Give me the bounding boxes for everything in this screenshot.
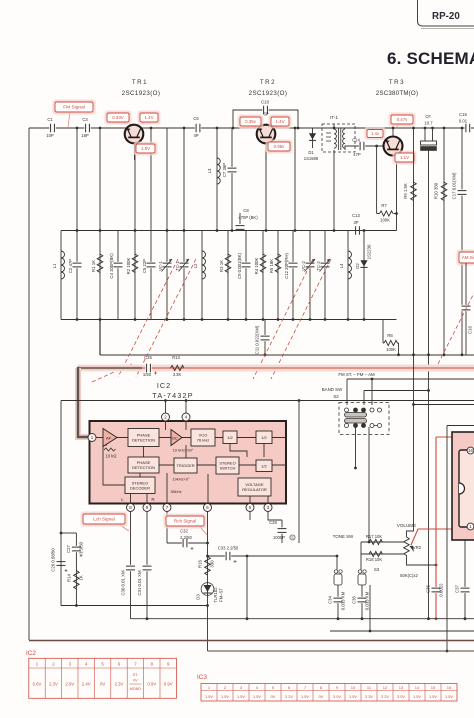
- svg-text:TC-2: TC-2: [316, 261, 321, 271]
- svg-text:0V: 0V: [271, 694, 276, 699]
- wire C37 column: [464, 535, 466, 619]
- junction main wire x444: [443, 127, 446, 130]
- wire R7 left leg: [376, 146, 378, 214]
- pin 3 IC2: [264, 504, 272, 512]
- resistor R2: [132, 254, 138, 273]
- junction main wire x295: [294, 127, 297, 130]
- wire TR1 emitter stub: [134, 143, 136, 160]
- dashed gang line VC-2: [253, 259, 313, 379]
- capacitor C5: [147, 262, 156, 268]
- svg-text:1.1V: 1.1V: [400, 155, 409, 160]
- capacitor C14: [359, 142, 365, 150]
- svg-text:1/2: 1/2: [261, 435, 267, 440]
- capacitor C8: [239, 213, 241, 224]
- junction bottom rail x348: [347, 318, 350, 321]
- junction rail619 x147: [146, 617, 149, 620]
- band switch S2: [339, 403, 389, 435]
- junction main wire x233: [232, 127, 235, 130]
- svg-text:1S1588: 1S1588: [304, 156, 319, 161]
- wire C11 column: [264, 320, 266, 355]
- svg-text:VR2: VR2: [413, 545, 422, 550]
- pointer Rch: [200, 527, 207, 535]
- resistor R13: [171, 365, 184, 370]
- svg-text:1.5V: 1.5V: [253, 694, 261, 699]
- svg-text:C2 47P: C2 47P: [68, 259, 73, 273]
- svg-text:Lch Signal: Lch Signal: [93, 517, 114, 522]
- pin 9 IC2: [143, 504, 151, 512]
- svg-text:AM Sig: AM Sig: [462, 255, 474, 260]
- svg-text:4P: 4P: [193, 133, 198, 138]
- wire C34 column: [337, 585, 339, 619]
- svg-text:13: 13: [399, 685, 404, 690]
- svg-text:0.35v: 0.35v: [245, 119, 257, 124]
- svg-text:DC: DC: [172, 436, 178, 440]
- switch S3 right: [358, 570, 366, 585]
- svg-text:R7: R7: [381, 203, 387, 208]
- svg-text:2.2V: 2.2V: [381, 694, 389, 699]
- transformer IT-1: [322, 124, 355, 152]
- capacitor C25: [145, 364, 151, 372]
- svg-text:C5 22P: C5 22P: [142, 259, 147, 273]
- callout FM Signal: [53, 100, 96, 115]
- block divider 1/2 a: [223, 431, 237, 444]
- junction R14 bottom: [75, 604, 78, 607]
- svg-text:12: 12: [383, 685, 388, 690]
- wire lower rail y=355: [100, 354, 474, 356]
- dashed gang line right: [438, 293, 474, 364]
- wire drop x299: [298, 401, 300, 544]
- svg-text:TRIGGER: TRIGGER: [176, 463, 194, 468]
- pin 6 IC2: [204, 504, 212, 512]
- svg-text:L4: L4: [339, 263, 344, 268]
- svg-text:R3 1K: R3 1K: [219, 260, 224, 272]
- junction LED line y605: [206, 604, 209, 607]
- wire: thick lead into IC2 pin 1: [78, 367, 88, 437]
- svg-text:3.0V: 3.0V: [397, 694, 405, 699]
- wire IC2 internal verticals: [131, 421, 269, 504]
- resistor R9: [411, 182, 417, 201]
- wire connector x100 to lower rail: [99, 320, 101, 356]
- junction lower rail x398.5: [397, 353, 400, 356]
- junction bottom rail x310: [309, 318, 312, 321]
- wire bank column R2: [134, 231, 136, 320]
- transistor TR1: [125, 125, 144, 144]
- svg-text:D2: D2: [355, 263, 360, 269]
- svg-text:C11 0.022(XM): C11 0.022(XM): [255, 325, 260, 354]
- wire bank column L4: [347, 231, 349, 320]
- wire ground rail y=619: [131, 618, 474, 620]
- capacitor C35: [358, 597, 367, 603]
- wire R8 to rail: [398, 343, 400, 355]
- wire band switch down2: [368, 427, 370, 542]
- inductor L1: [61, 251, 65, 279]
- resistor R16: [205, 557, 211, 576]
- junction red bottom: [435, 617, 438, 620]
- svg-text:D1: D1: [308, 150, 314, 155]
- junction main wire x462: [461, 127, 464, 130]
- amplifier AF: [103, 429, 117, 447]
- wire bank column C9: [245, 231, 247, 320]
- svg-text:1.4V: 1.4V: [144, 115, 153, 120]
- wire drop x100: [99, 128, 101, 231]
- svg-text:IC2: IC2: [157, 381, 171, 390]
- callout Lch Signal: [81, 512, 128, 527]
- junction VR2 to red: [435, 564, 438, 567]
- transistor TR3: [384, 137, 403, 156]
- svg-text:2.4V: 2.4V: [82, 682, 91, 687]
- pointer TR2 voltages: [250, 125, 281, 128]
- svg-text:C26 0.68/50: C26 0.68/50: [51, 548, 56, 572]
- svg-text:10 kΩ: 10 kΩ: [106, 454, 117, 459]
- svg-text:TR2: TR2: [260, 79, 276, 86]
- svg-text:1.5V: 1.5V: [221, 694, 229, 699]
- svg-text:DECODER: DECODER: [130, 485, 150, 490]
- svg-text:ST.: ST.: [133, 673, 138, 677]
- wire TR3 emitter drop: [396, 155, 398, 230]
- svg-text:100K: 100K: [380, 218, 390, 223]
- wire C27 column: [75, 533, 77, 606]
- svg-text:C30 0.01 XM: C30 0.01 XM: [121, 570, 126, 595]
- junction bottom rail x135: [134, 318, 137, 321]
- svg-text:C9 0.001(BK): C9 0.001(BK): [237, 252, 242, 279]
- wire volume feed: [407, 355, 414, 537]
- wire VR2 bottom: [407, 555, 437, 565]
- svg-text:C1: C1: [47, 117, 53, 122]
- junction top rail x167: [166, 229, 169, 232]
- svg-text:R1 1K: R1 1K: [91, 260, 96, 272]
- svg-text:0.9V: 0.9V: [147, 682, 156, 687]
- wire bank column C4: [117, 231, 119, 320]
- wire rail y=631: [330, 630, 474, 632]
- svg-text:R16: R16: [198, 559, 203, 567]
- voltage label 0.95v: [266, 140, 293, 154]
- voltage label 0.33V: [105, 111, 132, 125]
- svg-text:1/2: 1/2: [227, 435, 233, 440]
- svg-text:Rch Signal: Rch Signal: [174, 519, 196, 524]
- pin 7 IC2: [163, 504, 171, 512]
- svg-text:FM ST. – FM – AM: FM ST. – FM – AM: [338, 372, 375, 377]
- junction main wire x425: [424, 127, 427, 130]
- svg-text:C6: C6: [193, 116, 199, 121]
- junction pin2 bus: [164, 399, 167, 402]
- wire bank column R1: [99, 231, 101, 320]
- svg-text:C7 36P: C7 36P: [222, 163, 227, 177]
- wire rail y=651: [208, 650, 474, 652]
- dashed gang line VC-1: [118, 259, 178, 377]
- svg-text:0V: 0V: [100, 682, 105, 687]
- voltage label 1.4V TR2: [269, 115, 292, 129]
- resistor R18: [369, 551, 382, 556]
- block VCO: [191, 429, 215, 446]
- svg-text:15: 15: [431, 685, 436, 690]
- arrow TC-2: [320, 259, 331, 272]
- wire bank column C12: [292, 231, 294, 320]
- junction main wire x100: [99, 127, 102, 130]
- wire TR2 emitter drop: [265, 143, 267, 231]
- junction bottom rail x246: [245, 318, 248, 321]
- wire: left border down: [28, 128, 30, 640]
- wire drop x184: [183, 128, 185, 231]
- junction top rail x295: [294, 229, 297, 232]
- wire x247 down: [246, 556, 248, 619]
- svg-text:C31 0.01 XM: C31 0.01 XM: [137, 570, 142, 595]
- svg-text:10.7: 10.7: [424, 121, 433, 126]
- svg-text:IC3: IC3: [197, 674, 207, 681]
- wire IC2 signal row1: [96, 437, 286, 439]
- switch S3 left: [334, 570, 342, 585]
- wire C16 column: [465, 263, 467, 355]
- block phase detection 1: [128, 429, 159, 447]
- wire red column x436: [435, 437, 437, 619]
- svg-text:3.3/50: 3.3/50: [79, 541, 84, 554]
- callout Rch Signal: [164, 514, 207, 529]
- wire bank column D2: [363, 231, 365, 320]
- wire C10 bypass loop: [233, 110, 298, 128]
- svg-text:10P: 10P: [46, 133, 54, 138]
- wire IC2 decoder feed: [103, 445, 125, 485]
- variable capacitor TC-2: [321, 262, 330, 268]
- junction x369 y542: [368, 541, 371, 544]
- variable capacitor VC-2: [306, 262, 315, 268]
- wire D1 branch: [312, 128, 314, 148]
- wire band switch feed left: [346, 379, 348, 405]
- variable capacitor VC-1: [163, 262, 172, 268]
- junction bottom rail x202: [201, 318, 204, 321]
- junction main wire x413.5: [412, 127, 415, 130]
- svg-text:1.5V: 1.5V: [237, 694, 245, 699]
- wire R18 row: [361, 553, 404, 555]
- junction main wire x432.5: [431, 127, 434, 130]
- junction R7 emitter line: [395, 212, 398, 215]
- junction TR3 base R7: [375, 145, 378, 148]
- svg-text:REGULATOR: REGULATOR: [242, 487, 267, 492]
- svg-text:R9 1.5K: R9 1.5K: [403, 183, 408, 199]
- svg-text:0.9V: 0.9V: [164, 682, 173, 687]
- svg-text:C36: C36: [426, 584, 431, 592]
- svg-text:C16: C16: [468, 325, 473, 333]
- pointer FM Signal: [68, 112, 70, 127]
- svg-text:C25: C25: [144, 355, 152, 360]
- wire: main FM signal line y=128: [29, 127, 474, 129]
- svg-text:C3: C3: [82, 117, 88, 122]
- svg-text:L1: L1: [52, 263, 57, 268]
- svg-text:3P: 3P: [353, 220, 358, 225]
- capacitor C30: [126, 565, 135, 571]
- svg-text:FM Signal: FM Signal: [63, 105, 85, 111]
- svg-text:19kHz<0°: 19kHz<0°: [172, 477, 190, 482]
- junction bottom rail x184: [183, 318, 186, 321]
- junction x447 y651: [446, 650, 449, 653]
- junction bottom rail x278: [277, 318, 280, 321]
- svg-text:C37: C37: [455, 584, 460, 592]
- LED D3: [201, 583, 214, 596]
- junction bottom rail x77: [76, 318, 79, 321]
- svg-text:18P: 18P: [81, 133, 89, 138]
- wire drop C7 column: [231, 128, 233, 231]
- svg-text:19 kHz<90°: 19 kHz<90°: [173, 448, 194, 453]
- junction main wire x77: [76, 127, 79, 130]
- label TR1: [122, 79, 161, 97]
- pin 16 IC3: [467, 447, 474, 454]
- junction main wire x151: [150, 127, 153, 130]
- svg-text:2SC1923(O): 2SC1923(O): [249, 90, 288, 97]
- wire bottom border y=640: [29, 640, 474, 642]
- wire CF output column x428: [428, 151, 430, 620]
- svg-text:AF: AF: [106, 436, 112, 441]
- junction top rail x364: [363, 229, 366, 232]
- polarity mark C27: [80, 554, 83, 557]
- junction rail619 x465: [464, 617, 467, 620]
- svg-text:C4 100P(BK): C4 100P(BK): [109, 253, 114, 279]
- svg-text:0.033 XM: 0.033 XM: [341, 591, 346, 610]
- pin 1 IC2: [88, 434, 96, 442]
- wire TR2 emitter stub: [265, 143, 267, 160]
- wire y425 stub: [447, 425, 474, 427]
- wire R7 ends: [377, 213, 397, 215]
- svg-text:16: 16: [447, 685, 452, 690]
- wire S3 right feed: [360, 542, 362, 571]
- svg-text:0.47v: 0.47v: [397, 117, 409, 122]
- wire bank column C5: [150, 231, 152, 320]
- svg-text:C17 0.01(XM): C17 0.01(XM): [452, 172, 457, 199]
- resistor R7: [380, 211, 393, 216]
- svg-text:VC-1: VC-1: [158, 260, 163, 270]
- diode D1: [309, 133, 316, 140]
- resistor R14: [74, 571, 80, 590]
- resistor R4: [260, 254, 266, 273]
- block stereo switch: [216, 457, 239, 474]
- svg-text:C12 20P(RH): C12 20P(RH): [284, 253, 289, 279]
- wire C28 column: [281, 520, 283, 543]
- resistor R5: [275, 254, 281, 273]
- IC U3: IC3 block: [452, 432, 474, 540]
- svg-text:0V: 0V: [133, 679, 138, 683]
- capacitor C12: [289, 262, 298, 268]
- wire R8 left leg: [382, 320, 384, 344]
- svg-text:TR3: TR3: [389, 79, 405, 86]
- svg-text:10: 10: [351, 685, 356, 690]
- svg-text:VC-2: VC-2: [301, 260, 306, 270]
- svg-text:R17 10K: R17 10K: [366, 534, 383, 539]
- wire bank column TC-1: [183, 231, 185, 320]
- wire bank top rail y=230: [61, 230, 397, 232]
- svg-text:1000P: 1000P: [273, 535, 285, 540]
- junction x299 bus: [298, 399, 301, 402]
- wire pin4 riser: [185, 401, 187, 414]
- dashed gang line TC-2: [271, 259, 331, 379]
- svg-text:1.5V: 1.5V: [445, 694, 453, 699]
- wire: FM detector output band (red): [78, 365, 474, 372]
- svg-text:2.3V: 2.3V: [365, 694, 373, 699]
- capacitor C3: [84, 124, 90, 132]
- capacitor C26: [57, 560, 66, 566]
- wire drop L3 column: [216, 128, 218, 231]
- svg-text:1.4V: 1.4V: [275, 119, 284, 124]
- junction lower rail x462: [461, 353, 464, 356]
- svg-text:1.5V: 1.5V: [349, 694, 357, 699]
- svg-text:470P (BK): 470P (BK): [238, 215, 258, 220]
- junction main wire x298: [297, 127, 300, 130]
- svg-text:76 kHz: 76 kHz: [197, 438, 209, 443]
- svg-text:C34: C34: [328, 595, 333, 603]
- svg-text:0.33V: 0.33V: [112, 115, 124, 120]
- svg-text:D3: D3: [196, 594, 201, 600]
- wire pin2 riser: [165, 401, 167, 414]
- svg-text:L2: L2: [193, 263, 198, 268]
- svg-text:DETECTION: DETECTION: [132, 465, 155, 470]
- wire bank column L2: [201, 231, 203, 320]
- junction bottom rail x167: [166, 318, 169, 321]
- svg-text:C15: C15: [459, 112, 467, 117]
- svg-text:1/50: 1/50: [143, 372, 152, 377]
- svg-text:TLR102: TLR102: [213, 587, 218, 603]
- junction main wire x393: [392, 127, 395, 130]
- wire red audio path to IC3: [411, 529, 470, 545]
- resistor R8: [384, 340, 397, 345]
- svg-text:1S2236: 1S2236: [367, 244, 372, 259]
- transistor TR2: [257, 125, 276, 144]
- junction bottom rail x228: [227, 318, 230, 321]
- svg-text:1.5V: 1.5V: [301, 694, 309, 699]
- svg-text:SWITCH: SWITCH: [220, 466, 236, 471]
- svg-text:TONE SW: TONE SW: [333, 534, 354, 539]
- inductor L2: [202, 251, 206, 279]
- capacitor C1: [49, 124, 55, 132]
- junction top rail x135: [134, 229, 137, 232]
- svg-text:1.0V: 1.0V: [141, 146, 150, 151]
- voltage label 1.1V: [393, 151, 417, 165]
- wire IC2 signal row2: [159, 464, 286, 466]
- wire TR3 collector stub: [392, 128, 394, 137]
- svg-text:50K(C)x2: 50K(C)x2: [400, 573, 418, 578]
- pointer TR1 voltages: [119, 118, 149, 125]
- svg-text:2.3V: 2.3V: [49, 682, 58, 687]
- svg-text:3.0V: 3.0V: [333, 694, 341, 699]
- resistor 10 kohm: [104, 448, 116, 459]
- svg-text:C28: C28: [269, 520, 277, 525]
- variable capacitor TC-1: [180, 262, 189, 268]
- svg-text:TC-1: TC-1: [175, 261, 180, 271]
- wire pin5 stub: [249, 512, 251, 521]
- junction lower rail x413.5: [412, 353, 415, 356]
- diode D2: [360, 260, 367, 267]
- wire x447 column: [446, 426, 448, 652]
- voltage label 1.4V: [138, 111, 161, 125]
- svg-text:L: L: [121, 497, 124, 502]
- svg-text:BAND SW: BAND SW: [322, 387, 343, 392]
- pin 1 IC3: [467, 523, 474, 530]
- wire R9 column: [413, 128, 415, 355]
- label C28 S circle: [290, 535, 295, 540]
- capacitor C11: [261, 335, 270, 341]
- wire LED column: [207, 512, 209, 652]
- junction x61 y533: [60, 532, 63, 535]
- table IC3 voltages: [197, 674, 457, 701]
- arrow VC-1: [162, 259, 173, 272]
- junction main wire x334: [333, 127, 336, 130]
- svg-text:R2 100K: R2 100K: [126, 258, 131, 275]
- svg-text:0.95v: 0.95v: [274, 144, 286, 149]
- capacitor C34: [334, 597, 343, 603]
- svg-text:C14: C14: [352, 138, 360, 143]
- wire x370 down: [369, 585, 371, 631]
- resistor R17: [369, 539, 382, 544]
- svg-text:100K: 100K: [386, 347, 396, 352]
- svg-text:2.3V: 2.3V: [115, 682, 124, 687]
- wire red stub to IC3: [436, 436, 453, 438]
- svg-text:14: 14: [415, 685, 420, 690]
- capacitor C8 body: [236, 224, 245, 230]
